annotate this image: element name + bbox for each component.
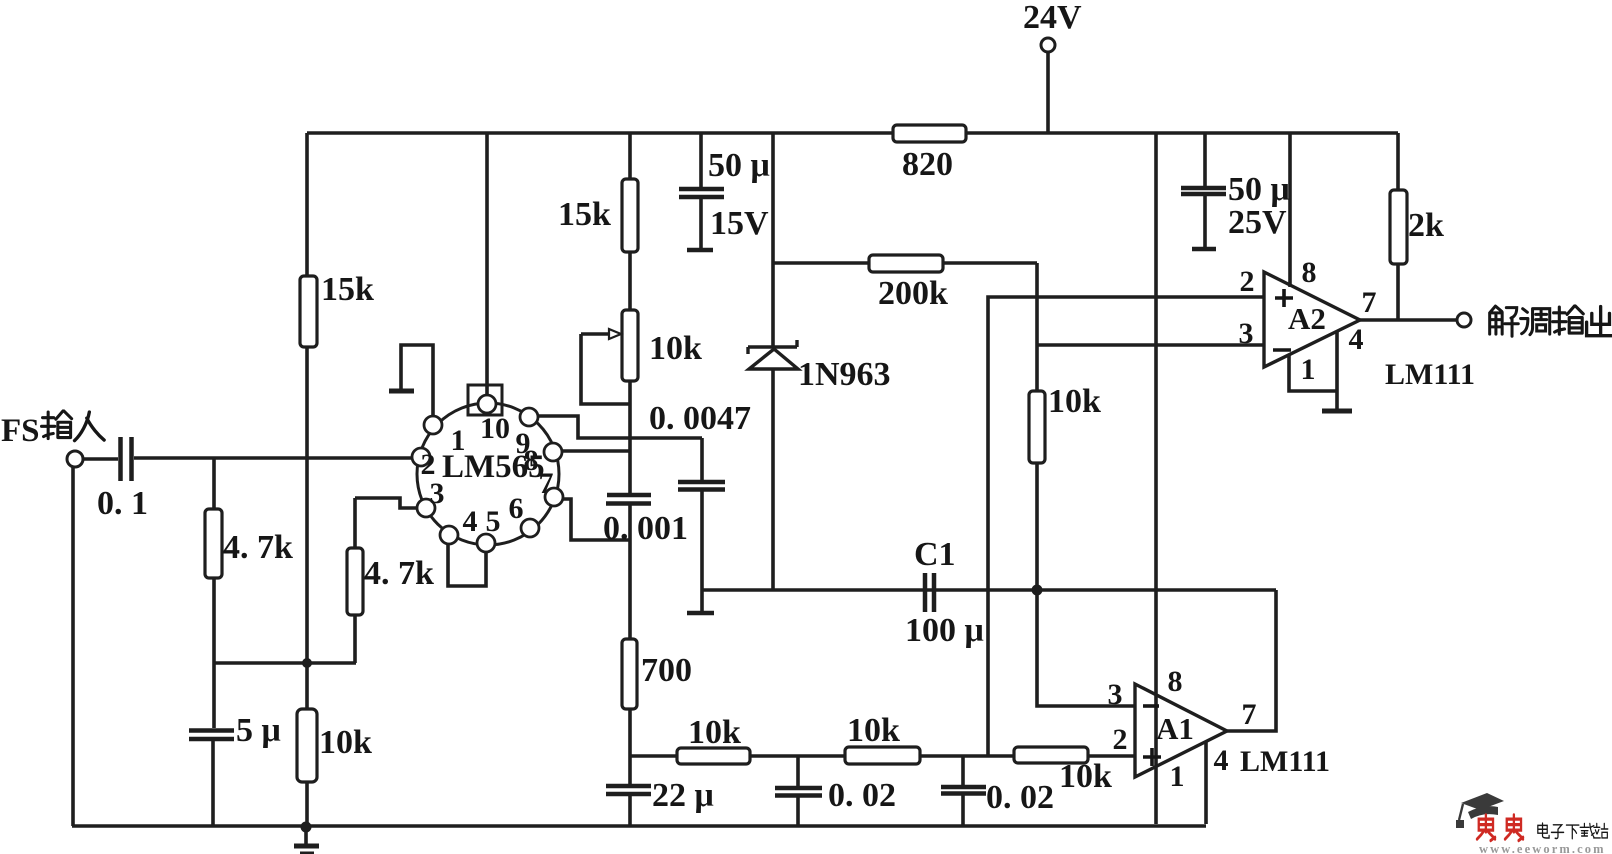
A1 minus sign — [1143, 704, 1159, 708]
svg-text:700: 700 — [641, 652, 692, 689]
wire: stem from rail to LM565 pin10 box — [485, 133, 489, 394]
svg-text:10k: 10k — [319, 724, 372, 761]
svg-text:1N963: 1N963 — [798, 356, 891, 393]
wire: link y=663 — [213, 661, 356, 665]
wire: x=1037 column down to A1 pin3 — [1037, 263, 1134, 706]
capacitor 0.02 #1 plates — [775, 788, 822, 796]
wire: LM565 pin7 jog to x=630 — [562, 499, 630, 540]
wire: 0.0047 stem and tail — [700, 438, 704, 611]
node: junction dot (1037,590) — [1032, 585, 1043, 596]
ground: pin1 stub bar — [389, 389, 414, 394]
capacitor 0.02 #2 plates — [941, 787, 986, 794]
ground: 50u/15V bar — [687, 248, 713, 253]
svg-text:A1: A1 — [1156, 711, 1194, 746]
svg-text:5: 5 — [486, 505, 501, 538]
svg-text:10: 10 — [480, 412, 510, 445]
ground: main ground bar — [294, 844, 319, 849]
svg-text:2: 2 — [421, 448, 436, 481]
watermark chongchong red — [1477, 815, 1495, 841]
LM565 pin 6 — [521, 519, 539, 537]
resistor 10k chain #1 — [677, 748, 750, 764]
svg-text:4: 4 — [1214, 744, 1229, 777]
resistor 2k — [1390, 190, 1407, 264]
wire: x=630 column (rail,15k,pot,0.001,700,chain,22u) — [628, 133, 632, 826]
LM565 pin 8 — [544, 443, 562, 461]
svg-text:4: 4 — [463, 505, 478, 538]
svg-text:10k: 10k — [847, 712, 900, 749]
wire: LM565 pin3 jog — [355, 498, 417, 508]
op-amp A2 triangle — [1264, 272, 1360, 367]
resistor 700 — [622, 639, 637, 709]
svg-text:10k: 10k — [1048, 383, 1101, 420]
resistor 10k (left bottom) — [297, 709, 317, 782]
resistor 15k #2 — [622, 179, 638, 252]
wire: A2 pin8 stem — [1288, 133, 1292, 287]
svg-text:LM111: LM111 — [1240, 745, 1330, 778]
wire: 2k column — [1396, 133, 1400, 320]
wire: 0.02 #1 stems — [796, 756, 800, 825]
wire: FS input left column — [71, 466, 75, 826]
svg-text:7: 7 — [539, 467, 554, 500]
LM565 pin 3 — [417, 499, 435, 517]
LM565 pin 10 — [478, 395, 496, 413]
svg-text:0. 1: 0. 1 — [97, 485, 148, 522]
resistor 4.7k #2 — [347, 548, 363, 615]
svg-text:1: 1 — [451, 424, 466, 457]
svg-text:10k: 10k — [1059, 758, 1112, 795]
svg-text:50 μ: 50 μ — [708, 147, 770, 184]
wire: 0.1 cap to LM565 pin2 — [134, 456, 412, 460]
wire: 50u/15V cap stem — [699, 133, 703, 248]
node: junction dot (306,827) — [301, 822, 312, 833]
A1 plus sign — [1143, 748, 1161, 766]
svg-text:8: 8 — [1302, 256, 1317, 289]
wire: bottom resistor chain y=756 — [630, 754, 1134, 758]
wire: 200k line — [773, 261, 1037, 265]
svg-text:6: 6 — [509, 492, 524, 525]
svg-text:3: 3 — [430, 477, 445, 510]
capacitor 0.1 plates — [121, 437, 132, 481]
ground: 0.0047 tail bar — [687, 611, 714, 616]
resistor 10k chain #3 — [1014, 747, 1088, 763]
terminal: output — [1457, 313, 1471, 327]
resistor 15k (left) — [300, 276, 317, 347]
op-amp A1 triangle — [1135, 684, 1227, 777]
svg-text:820: 820 — [902, 146, 953, 183]
svg-text:0. 0047: 0. 0047 — [649, 400, 751, 437]
svg-text:25V: 25V — [1228, 204, 1287, 241]
svg-text:2: 2 — [1240, 265, 1255, 298]
svg-text:FS: FS — [1, 413, 40, 449]
resistor 10k (A2 branch) — [1029, 391, 1045, 463]
LM565 pin10 box — [468, 385, 502, 415]
capacitor 5u plates — [189, 731, 234, 740]
svg-text:0. 02: 0. 02 — [828, 777, 896, 814]
wire: A1 pin4 stem — [1204, 741, 1208, 824]
svg-text:C1: C1 — [914, 536, 956, 573]
wire: pot wiper return — [581, 334, 630, 404]
svg-text:0. 02: 0. 02 — [986, 779, 1054, 816]
capacitor C1 100u plates — [925, 573, 934, 612]
wire: A1 output feedback to node line — [1227, 590, 1276, 731]
resistor 4.7k #1 — [205, 509, 222, 578]
terminal: FS input — [67, 451, 83, 467]
svg-text:7: 7 — [1242, 698, 1257, 731]
svg-text:10k: 10k — [688, 714, 741, 751]
potentiometer 10k body — [622, 310, 638, 381]
svg-text:3: 3 — [1239, 317, 1254, 350]
svg-text:A2: A2 — [1288, 301, 1326, 336]
IC LM565 package circle — [417, 403, 559, 545]
wire: 0.02 #2 stems — [961, 756, 965, 825]
svg-text:0. 001: 0. 001 — [603, 510, 688, 547]
capacitor 50u/15V plates — [679, 189, 724, 197]
wire: long vertical x=1156 rail to bottom rail — [1154, 133, 1158, 824]
capacitor 0.001 plates — [606, 495, 651, 504]
wire: 50u/25V cap stem — [1203, 133, 1207, 247]
label demodulated output — [1490, 306, 1519, 336]
LM565 pin 2 — [412, 448, 430, 466]
svg-text:2k: 2k — [1408, 207, 1444, 244]
terminal: 24V — [1041, 38, 1055, 52]
watermark site name — [1538, 823, 1549, 838]
resistor 10k chain #2 — [845, 747, 920, 764]
svg-text:4. 7k: 4. 7k — [364, 555, 434, 592]
svg-text:7: 7 — [1362, 286, 1377, 319]
wire: bottom ground rail — [72, 824, 1206, 828]
wire: pot wiper arrow line — [581, 332, 609, 336]
wire: node line y=590 — [702, 588, 1276, 592]
wire: A2 pin3 (-) input line — [1037, 343, 1264, 347]
svg-text:10k: 10k — [649, 330, 702, 367]
wire: A2 output to terminal — [1360, 318, 1457, 322]
wire: A2 pin2 (+) input line down to chain — [988, 297, 1264, 756]
svg-text:15k: 15k — [321, 271, 374, 308]
LM565 pin 4 — [440, 526, 458, 544]
wire: +24V top rail — [307, 131, 1398, 135]
wire: LM565 pin4-pin5 U link — [448, 545, 486, 586]
svg-text:22 μ: 22 μ — [652, 777, 714, 814]
svg-text:www.eeworm.com: www.eeworm.com — [1479, 842, 1606, 854]
svg-text:200k: 200k — [878, 275, 948, 312]
ground: A2 pin4 bar — [1322, 409, 1352, 414]
wire: LM565 pin1 to ground stub — [401, 345, 433, 417]
svg-text:8: 8 — [1168, 665, 1183, 698]
svg-text:50 μ: 50 μ — [1228, 171, 1290, 208]
potentiometer wiper arrowhead — [609, 329, 621, 339]
LM565 pin 5 — [477, 534, 495, 552]
wire: A2 pin1/pin4 ground link — [1289, 331, 1337, 409]
LM565 pin 1 — [424, 416, 442, 434]
wire: FS input to 0.1 cap — [83, 457, 118, 461]
wire: LM565 pin8 to x=630 — [562, 449, 630, 453]
wire: LM565 pin9 to 0.0047 — [537, 416, 702, 438]
ground: 50u/25V bar — [1192, 247, 1216, 252]
svg-text:5 μ: 5 μ — [236, 712, 281, 749]
capacitor 22u plates — [606, 786, 651, 794]
diode 1N963 zener — [748, 340, 798, 369]
ground: main ground stem — [304, 827, 308, 844]
svg-text:24V: 24V — [1023, 0, 1082, 36]
svg-text:100 μ: 100 μ — [905, 612, 984, 649]
LM565 pin 9 — [520, 408, 538, 426]
svg-text:4. 7k: 4. 7k — [223, 529, 293, 566]
svg-text:8: 8 — [524, 444, 539, 477]
wire: 24V terminal stem — [1046, 52, 1050, 133]
A2 minus sign — [1273, 348, 1291, 352]
svg-text:LM111: LM111 — [1385, 358, 1475, 391]
svg-text:15V: 15V — [710, 205, 769, 242]
wire: 4.7k #2 column — [353, 498, 357, 663]
node: junction dot (307,663) — [302, 658, 312, 668]
svg-text:1: 1 — [1170, 760, 1185, 793]
LM565 pin 7 — [545, 488, 563, 506]
wire: left column x=307 (rail to ground rail) — [305, 133, 309, 826]
wire: x=773 column through zener to node line — [771, 133, 775, 590]
watermark graduation cap — [1456, 793, 1504, 828]
capacitor 0.0047 plates — [678, 482, 725, 490]
svg-text:15k: 15k — [558, 196, 611, 233]
svg-text:2: 2 — [1113, 723, 1128, 756]
resistor 200k — [869, 255, 943, 272]
capacitor 50u/25V plates — [1181, 188, 1226, 194]
svg-text:3: 3 — [1108, 678, 1123, 711]
resistor 820 — [893, 125, 966, 142]
wire: 4.7k #1 column — [213, 458, 214, 826]
svg-text:4: 4 — [1349, 323, 1364, 356]
A2 plus sign — [1275, 289, 1293, 307]
svg-text:1: 1 — [1301, 353, 1316, 386]
